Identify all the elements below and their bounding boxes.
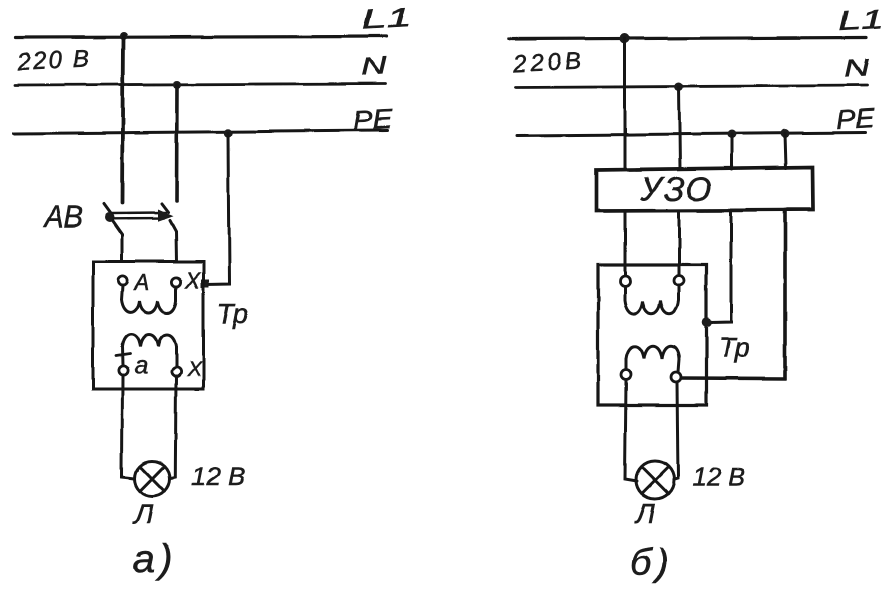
secondary terminal x (left) — [171, 367, 180, 376]
wire lamp left lead (left circuit) — [122, 376, 135, 479]
secondary terminal right (right circuit) — [671, 372, 681, 382]
primary terminal right (right circuit) — [674, 276, 684, 286]
junction dot on N (right) — [675, 83, 684, 92]
svg-text:A: A — [133, 270, 150, 295]
secondary winding (left) — [122, 335, 176, 367]
svg-text:L1: L1 — [838, 4, 885, 36]
secondary terminal a (left) — [118, 366, 127, 375]
junction dot on PE (left) — [224, 129, 232, 137]
wire PE drop to transformer X terminal — [205, 133, 229, 285]
junction dot on transformer right edge — [702, 318, 712, 328]
svg-text:220 В: 220 В — [16, 45, 92, 76]
svg-text:N: N — [843, 55, 870, 83]
wire L1 drop to UZO — [624, 39, 627, 170]
wire secondary stub to terminal a — [121, 347, 125, 366]
secondary winding (right) — [626, 346, 679, 372]
lamp L (left) — [135, 461, 170, 496]
wire UZO PE to transformer case junction — [710, 210, 731, 323]
svg-text:220В: 220В — [511, 47, 585, 78]
wire lamp right lead (left circuit) — [171, 377, 176, 479]
svg-text:Тр: Тр — [718, 332, 750, 363]
primary winding (right) — [625, 286, 679, 314]
svg-text:а): а) — [133, 537, 177, 581]
junction dot on L1 (left) — [120, 32, 128, 40]
svg-text:12 В: 12 В — [191, 461, 245, 491]
wire N drop to breaker — [175, 85, 179, 202]
wire PE drop 1 to UZO — [730, 135, 733, 170]
svg-text:X: X — [186, 358, 202, 381]
wire lamp left lead (right circuit) — [625, 380, 637, 481]
primary terminal A (left) — [118, 276, 127, 285]
wire lamp right lead (right circuit) — [675, 382, 679, 480]
wire N bus (right circuit) — [515, 86, 867, 88]
transformer Tr box (right) — [598, 265, 706, 405]
svg-text:N: N — [360, 53, 388, 81]
svg-text:12 В: 12 В — [692, 462, 746, 492]
primary terminal X (left) — [171, 277, 180, 286]
svg-text:Л: Л — [132, 498, 154, 529]
primary winding (left) — [122, 286, 176, 314]
wire N bus (left circuit) — [15, 84, 386, 86]
wire L1 bus (left circuit) — [16, 37, 387, 38]
svg-text:УЗО: УЗО — [640, 170, 714, 207]
junction dot on PE 2 (right) — [781, 129, 790, 138]
svg-text:PE: PE — [352, 104, 395, 136]
wire UZO to primary terminal X (right) — [678, 211, 681, 278]
junction dot on L1 (right) — [620, 34, 630, 44]
svg-text:АВ: АВ — [43, 199, 83, 234]
junction dot on PE 1 (right) — [727, 130, 736, 139]
transformer Tr box (left) — [93, 262, 203, 389]
svg-text:б): б) — [630, 542, 674, 584]
wire UZO to primary terminal A (right) — [624, 211, 627, 278]
wire PE drop 2 to UZO — [785, 134, 786, 169]
svg-text:a: a — [134, 352, 148, 380]
wire L1 drop to breaker — [123, 36, 124, 203]
svg-text:Л: Л — [634, 498, 656, 529]
svg-text:L1: L1 — [361, 2, 413, 35]
junction square at transformer right edge — [201, 280, 209, 288]
RCD UZO box — [596, 167, 813, 211]
secondary winding start tick — [116, 354, 130, 356]
wire PE bus (right circuit) — [517, 133, 866, 136]
junction dot on N (left) — [173, 81, 181, 89]
primary terminal left (right circuit) — [620, 276, 630, 286]
svg-text:X: X — [184, 268, 201, 293]
wire L1 bus (right circuit) — [509, 38, 866, 40]
circuit breaker AB (2-pole switch with link bar) — [104, 204, 177, 262]
lamp L (right) — [636, 461, 674, 499]
wire N drop to UZO — [679, 87, 680, 169]
svg-text:PE: PE — [836, 103, 877, 135]
secondary terminal left (right circuit) — [621, 370, 631, 380]
wire UZO PE to secondary terminal (right) — [679, 210, 785, 379]
svg-text:Тр: Тр — [217, 298, 249, 329]
wire secondary stub left (right) — [625, 359, 628, 370]
wire PE bus (left circuit) — [13, 131, 388, 134]
